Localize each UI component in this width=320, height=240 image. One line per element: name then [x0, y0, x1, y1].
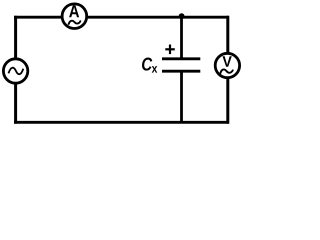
wire left upper segment — [14, 16, 17, 58]
node junction dot — [179, 13, 185, 19]
ammeter — [62, 4, 87, 29]
ammeter label A — [69, 5, 79, 17]
capacitor Cx bottom plate — [162, 70, 200, 73]
wire capacitor bottom lead — [180, 71, 183, 122]
wire right upper segment — [226, 16, 229, 53]
capacitor Cx top plate — [162, 57, 200, 60]
wire bottom segment — [14, 121, 229, 124]
wire left lower segment — [14, 84, 17, 124]
wire right lower segment — [226, 79, 229, 124]
wire capacitor top lead — [180, 17, 183, 59]
polarity plus sign — [165, 45, 175, 55]
wire top-right segment — [88, 16, 229, 19]
voltmeter tilde — [220, 69, 232, 73]
voltmeter — [215, 53, 239, 77]
voltmeter label V — [222, 56, 231, 66]
wire top-left segment — [14, 16, 61, 19]
AC source sine symbol — [9, 68, 24, 75]
AC source — [3, 59, 27, 83]
label Cx — [142, 57, 157, 72]
ammeter tilde — [69, 21, 81, 24]
